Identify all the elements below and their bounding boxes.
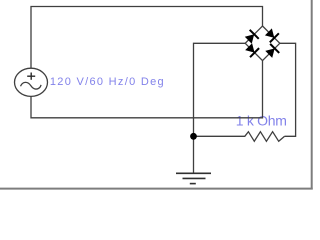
svg-text:120 V/60 Hz/0 Deg: 120 V/60 Hz/0 Deg (50, 76, 165, 88)
svg-text:1 k Ohm: 1 k Ohm (236, 113, 287, 129)
